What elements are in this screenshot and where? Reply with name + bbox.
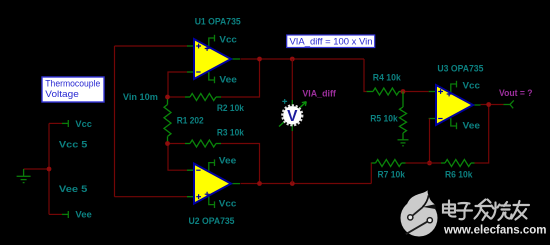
- U3 Vee pin: [451, 118, 457, 129]
- svg-text:Thermocouple: Thermocouple: [45, 79, 100, 90]
- VIA_diff note box: [287, 35, 375, 48]
- resistor R2 10k (horizontal): [185, 94, 221, 101]
- svg-text:www.elecfans.com: www.elecfans.com: [443, 224, 546, 236]
- U2 - mark: [196, 169, 200, 171]
- resistor R6 10k (horizontal): [441, 160, 475, 167]
- svg-text:Vee: Vee: [219, 156, 237, 166]
- U3 input pin stubs: [429, 92, 436, 119]
- wire: R1 top node to R2: [168, 96, 185, 98]
- svg-text:VIA_diff: VIA_diff: [302, 89, 336, 99]
- wire: to U2 +input: [115, 196, 189, 198]
- svg-text:Vcc: Vcc: [463, 80, 481, 90]
- svg-text:R4 10k: R4 10k: [373, 72, 402, 82]
- resistor R7 10k (horizontal): [372, 160, 406, 167]
- wire: R1 bottom node to U2 -input: [168, 144, 190, 171]
- svg-text:Vee: Vee: [75, 210, 92, 220]
- Thermocouple Voltage note box: [42, 77, 104, 102]
- svg-text:R6 10k: R6 10k: [445, 170, 473, 180]
- wire: voltmeter vertical bottom: [291, 131, 293, 184]
- svg-text:Vin 10m: Vin 10m: [123, 92, 158, 102]
- U1 - mark: [196, 71, 200, 73]
- U3 - mark: [438, 118, 442, 120]
- svg-text:Vout = ?: Vout = ?: [499, 88, 533, 98]
- svg-text:U1 OPA735: U1 OPA735: [195, 17, 241, 27]
- wire: U1 output row: [241, 58, 365, 60]
- wire: voltmeter vertical top: [291, 59, 293, 100]
- U2 Vee pin: [209, 159, 215, 171]
- wire: Vcc pin horizontal: [49, 122, 62, 124]
- U3 triangle body: [436, 85, 473, 125]
- elecfans watermark logo: [401, 190, 547, 236]
- svg-text:Vcc: Vcc: [219, 199, 237, 209]
- resistor R1 202 (vertical): [164, 97, 171, 144]
- power pin Vee (left): [62, 211, 68, 218]
- wire: R1 bottom node to R3: [168, 143, 185, 145]
- wire: to U1 +input: [115, 45, 189, 47]
- wire: U3 -input vertical: [429, 119, 431, 164]
- svg-text:Vcc: Vcc: [219, 34, 237, 44]
- logo circuit trace upper: [410, 207, 423, 218]
- U1 Vcc pin: [209, 35, 215, 46]
- op-amp U2 OPA735: [187, 159, 240, 208]
- resistor R3 10k (horizontal): [185, 140, 221, 147]
- svg-text:U2 OPA735: U2 OPA735: [189, 216, 235, 226]
- junction: R7/R6/U3-: [427, 161, 432, 166]
- junction: U1out/R2: [257, 57, 262, 62]
- wire: R4 to U3 +input: [403, 91, 429, 93]
- junction: U3 output node: [486, 102, 491, 107]
- U1 input pin stubs: [187, 46, 194, 72]
- voltmeter VM1: [279, 99, 306, 131]
- svg-text:R3 10k: R3 10k: [217, 127, 245, 137]
- svg-text:U3 OPA735: U3 OPA735: [437, 64, 483, 74]
- wire: R3 right to U2 output row: [221, 144, 260, 184]
- U2 triangle body: [194, 164, 231, 204]
- char 发: [475, 200, 492, 221]
- ground GND1: [17, 169, 31, 183]
- U1 + mark (input): [196, 44, 201, 49]
- logo notch wedge: [423, 204, 437, 209]
- wire: R7 to junction: [406, 162, 430, 164]
- resistor R5 10k (vertical): [400, 92, 407, 140]
- U3 output pin stub: [473, 104, 481, 106]
- logo Chinese text 电子发烧友 (stroke approximation): [443, 200, 529, 221]
- U2 + mark (center): [205, 192, 210, 197]
- U2 output pin stub: [231, 183, 240, 185]
- logo flame: [407, 190, 435, 207]
- wire: corner down to R4: [364, 59, 367, 92]
- wire: ground horizontal: [24, 168, 49, 170]
- svg-text:Vcc: Vcc: [75, 119, 92, 129]
- wire: R2 right to U1 output row: [221, 59, 260, 97]
- wire: U2 output row: [241, 183, 372, 185]
- svg-text:VIA_diff = 100 x Vin: VIA_diff = 100 x Vin: [290, 37, 373, 48]
- wire: left power branch vertical: [48, 123, 50, 214]
- svg-text:R5 10k: R5 10k: [370, 114, 398, 124]
- junction: R1 bottom: [165, 141, 170, 146]
- U2 input pin stubs: [187, 170, 194, 197]
- U3 Vcc pin: [451, 81, 457, 92]
- wire: thermocouple loop vertical: [114, 46, 116, 197]
- svg-text:Vee: Vee: [463, 121, 481, 131]
- op-amp U3 OPA735: [429, 81, 481, 129]
- svg-text:R1 202: R1 202: [177, 115, 204, 125]
- junction: U1out/voltmeter: [290, 57, 295, 62]
- char 友: [512, 201, 530, 220]
- wire: U1 -input to R1 top node: [168, 72, 190, 97]
- U3 + mark (center): [447, 92, 452, 97]
- logo pad upper: [408, 215, 413, 220]
- char 烧: [492, 202, 512, 220]
- svg-text:R7 10k: R7 10k: [378, 170, 406, 180]
- junction: R1 top: [165, 95, 170, 100]
- op-amp U1 OPA735: [187, 35, 240, 83]
- svg-text:Vee: Vee: [219, 75, 237, 85]
- wire: R6 right up to output node: [475, 105, 489, 164]
- junction: U2out/R3: [257, 181, 262, 186]
- svg-text:V: V: [287, 108, 298, 125]
- wire: Vee pin horizontal: [49, 213, 62, 215]
- wire: junction to R6: [430, 162, 442, 164]
- wire: corner up to R7: [370, 163, 373, 184]
- U1 Vee pin: [209, 72, 215, 83]
- U1 + mark (center): [205, 46, 210, 51]
- U1 triangle body: [194, 39, 231, 79]
- U1 output pin stub: [231, 58, 240, 60]
- junction: power branch to ground: [47, 167, 52, 172]
- logo pad lower: [427, 218, 432, 223]
- svg-text:Voltage: Voltage: [45, 89, 79, 100]
- U2 Vcc pin: [209, 197, 215, 208]
- output pin Vout: [504, 100, 514, 108]
- logo circle: [401, 200, 438, 237]
- logo circuit trace lower: [406, 220, 430, 234]
- power pin Vcc (left): [62, 120, 68, 127]
- U2 + mark (input): [196, 194, 201, 199]
- ground GND2 (below R5): [398, 140, 409, 146]
- svg-text:R2 10k: R2 10k: [217, 103, 245, 113]
- junction: U2out/voltmeter: [290, 181, 295, 186]
- U3 + mark (input): [438, 89, 443, 94]
- char 子: [457, 203, 472, 219]
- wire: U3 output: [481, 104, 504, 106]
- char 电: [443, 201, 456, 217]
- resistor R4 10k (horizontal): [367, 88, 403, 95]
- svg-text:Vee 5: Vee 5: [59, 184, 88, 194]
- logo notch crevice: [423, 195, 429, 207]
- junction: R4/R5: [401, 89, 406, 94]
- svg-text:Vcc 5: Vcc 5: [59, 140, 88, 150]
